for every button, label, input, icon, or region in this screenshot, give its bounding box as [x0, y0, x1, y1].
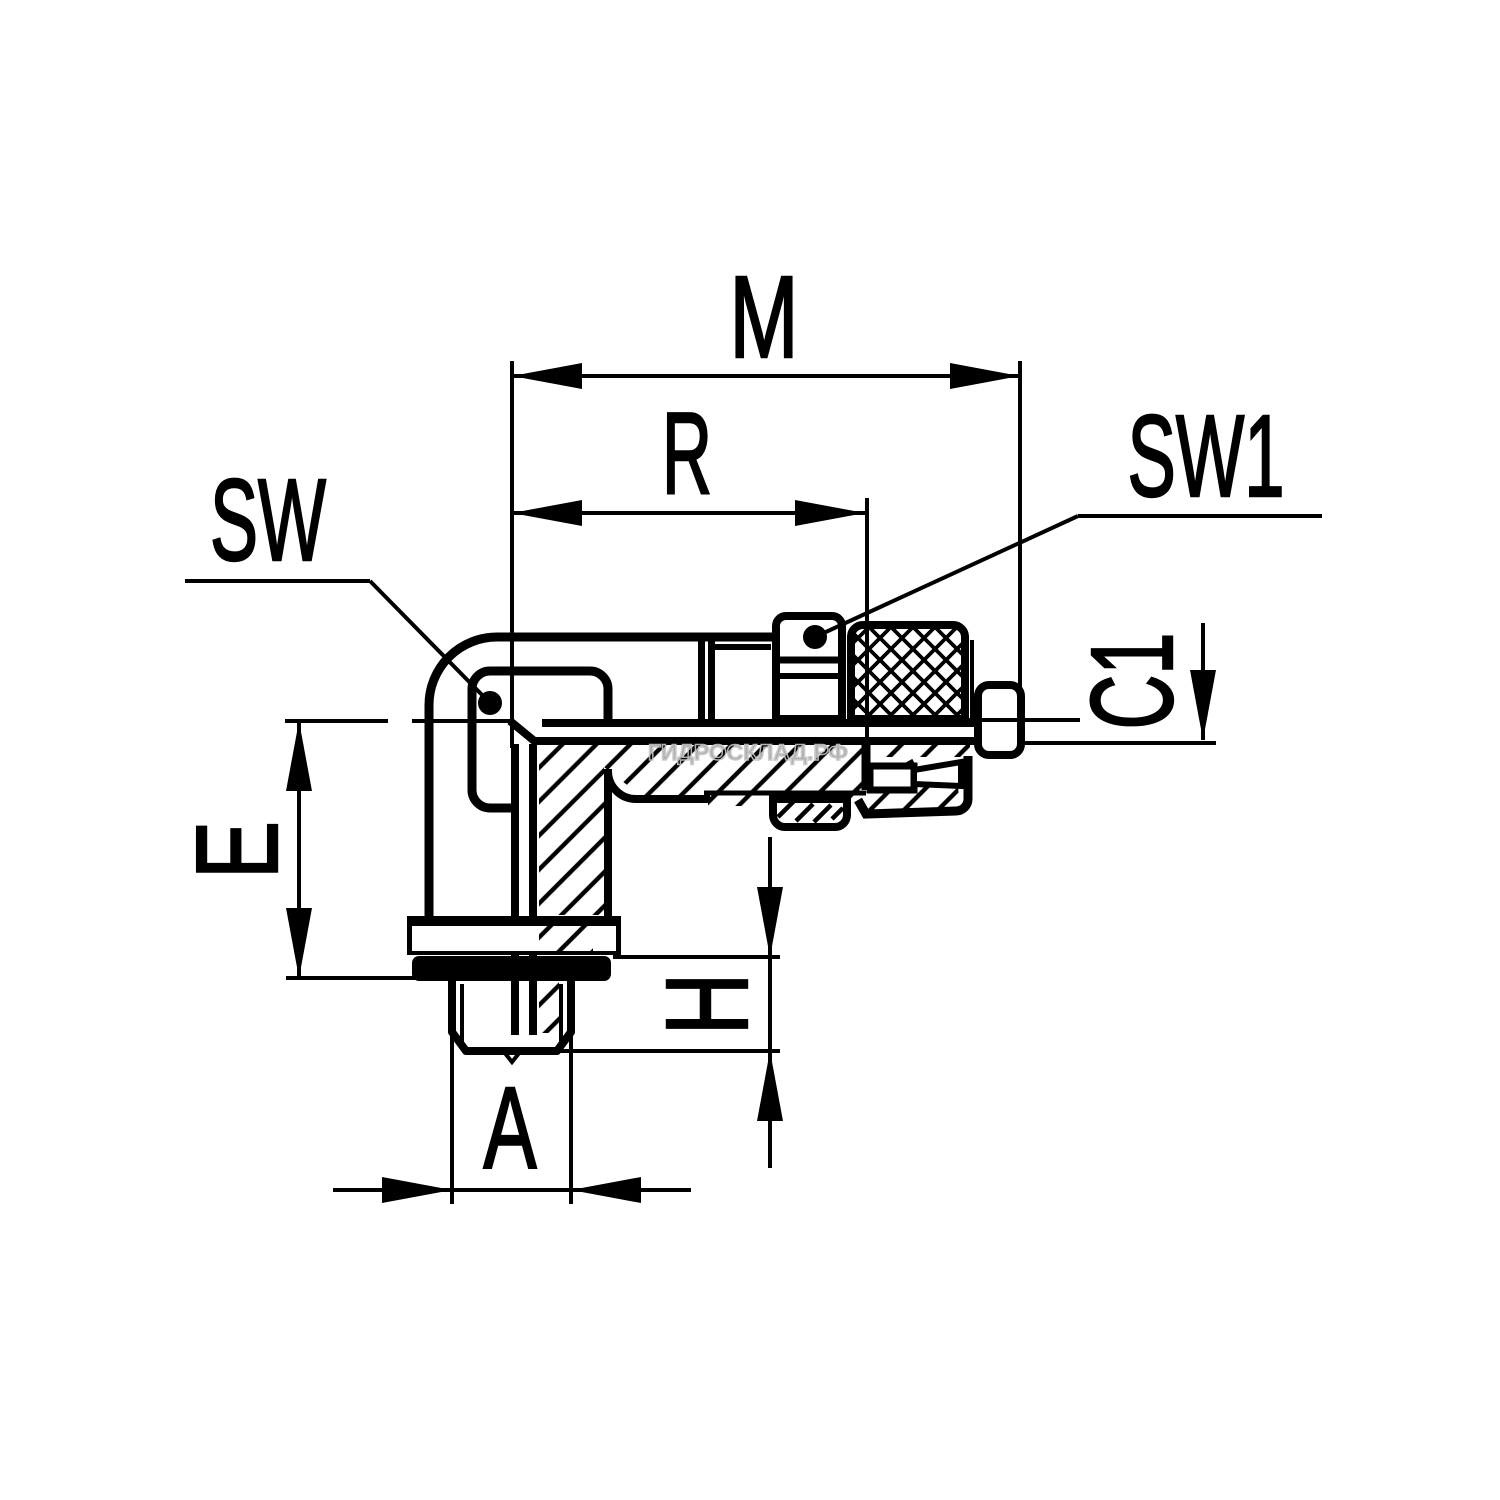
- svg-text:ГИДРОСКЛАД.РФ: ГИДРОСКЛАД.РФ: [648, 740, 848, 765]
- svg-text:SW1: SW1: [1128, 391, 1285, 521]
- svg-text:M: M: [730, 252, 799, 382]
- svg-text:C1: C1: [1067, 633, 1197, 730]
- svg-text:SW: SW: [210, 455, 326, 585]
- svg-text:R: R: [662, 388, 712, 518]
- svg-text:H: H: [642, 973, 772, 1035]
- svg-text:E: E: [172, 821, 302, 879]
- svg-text:A: A: [484, 1063, 537, 1193]
